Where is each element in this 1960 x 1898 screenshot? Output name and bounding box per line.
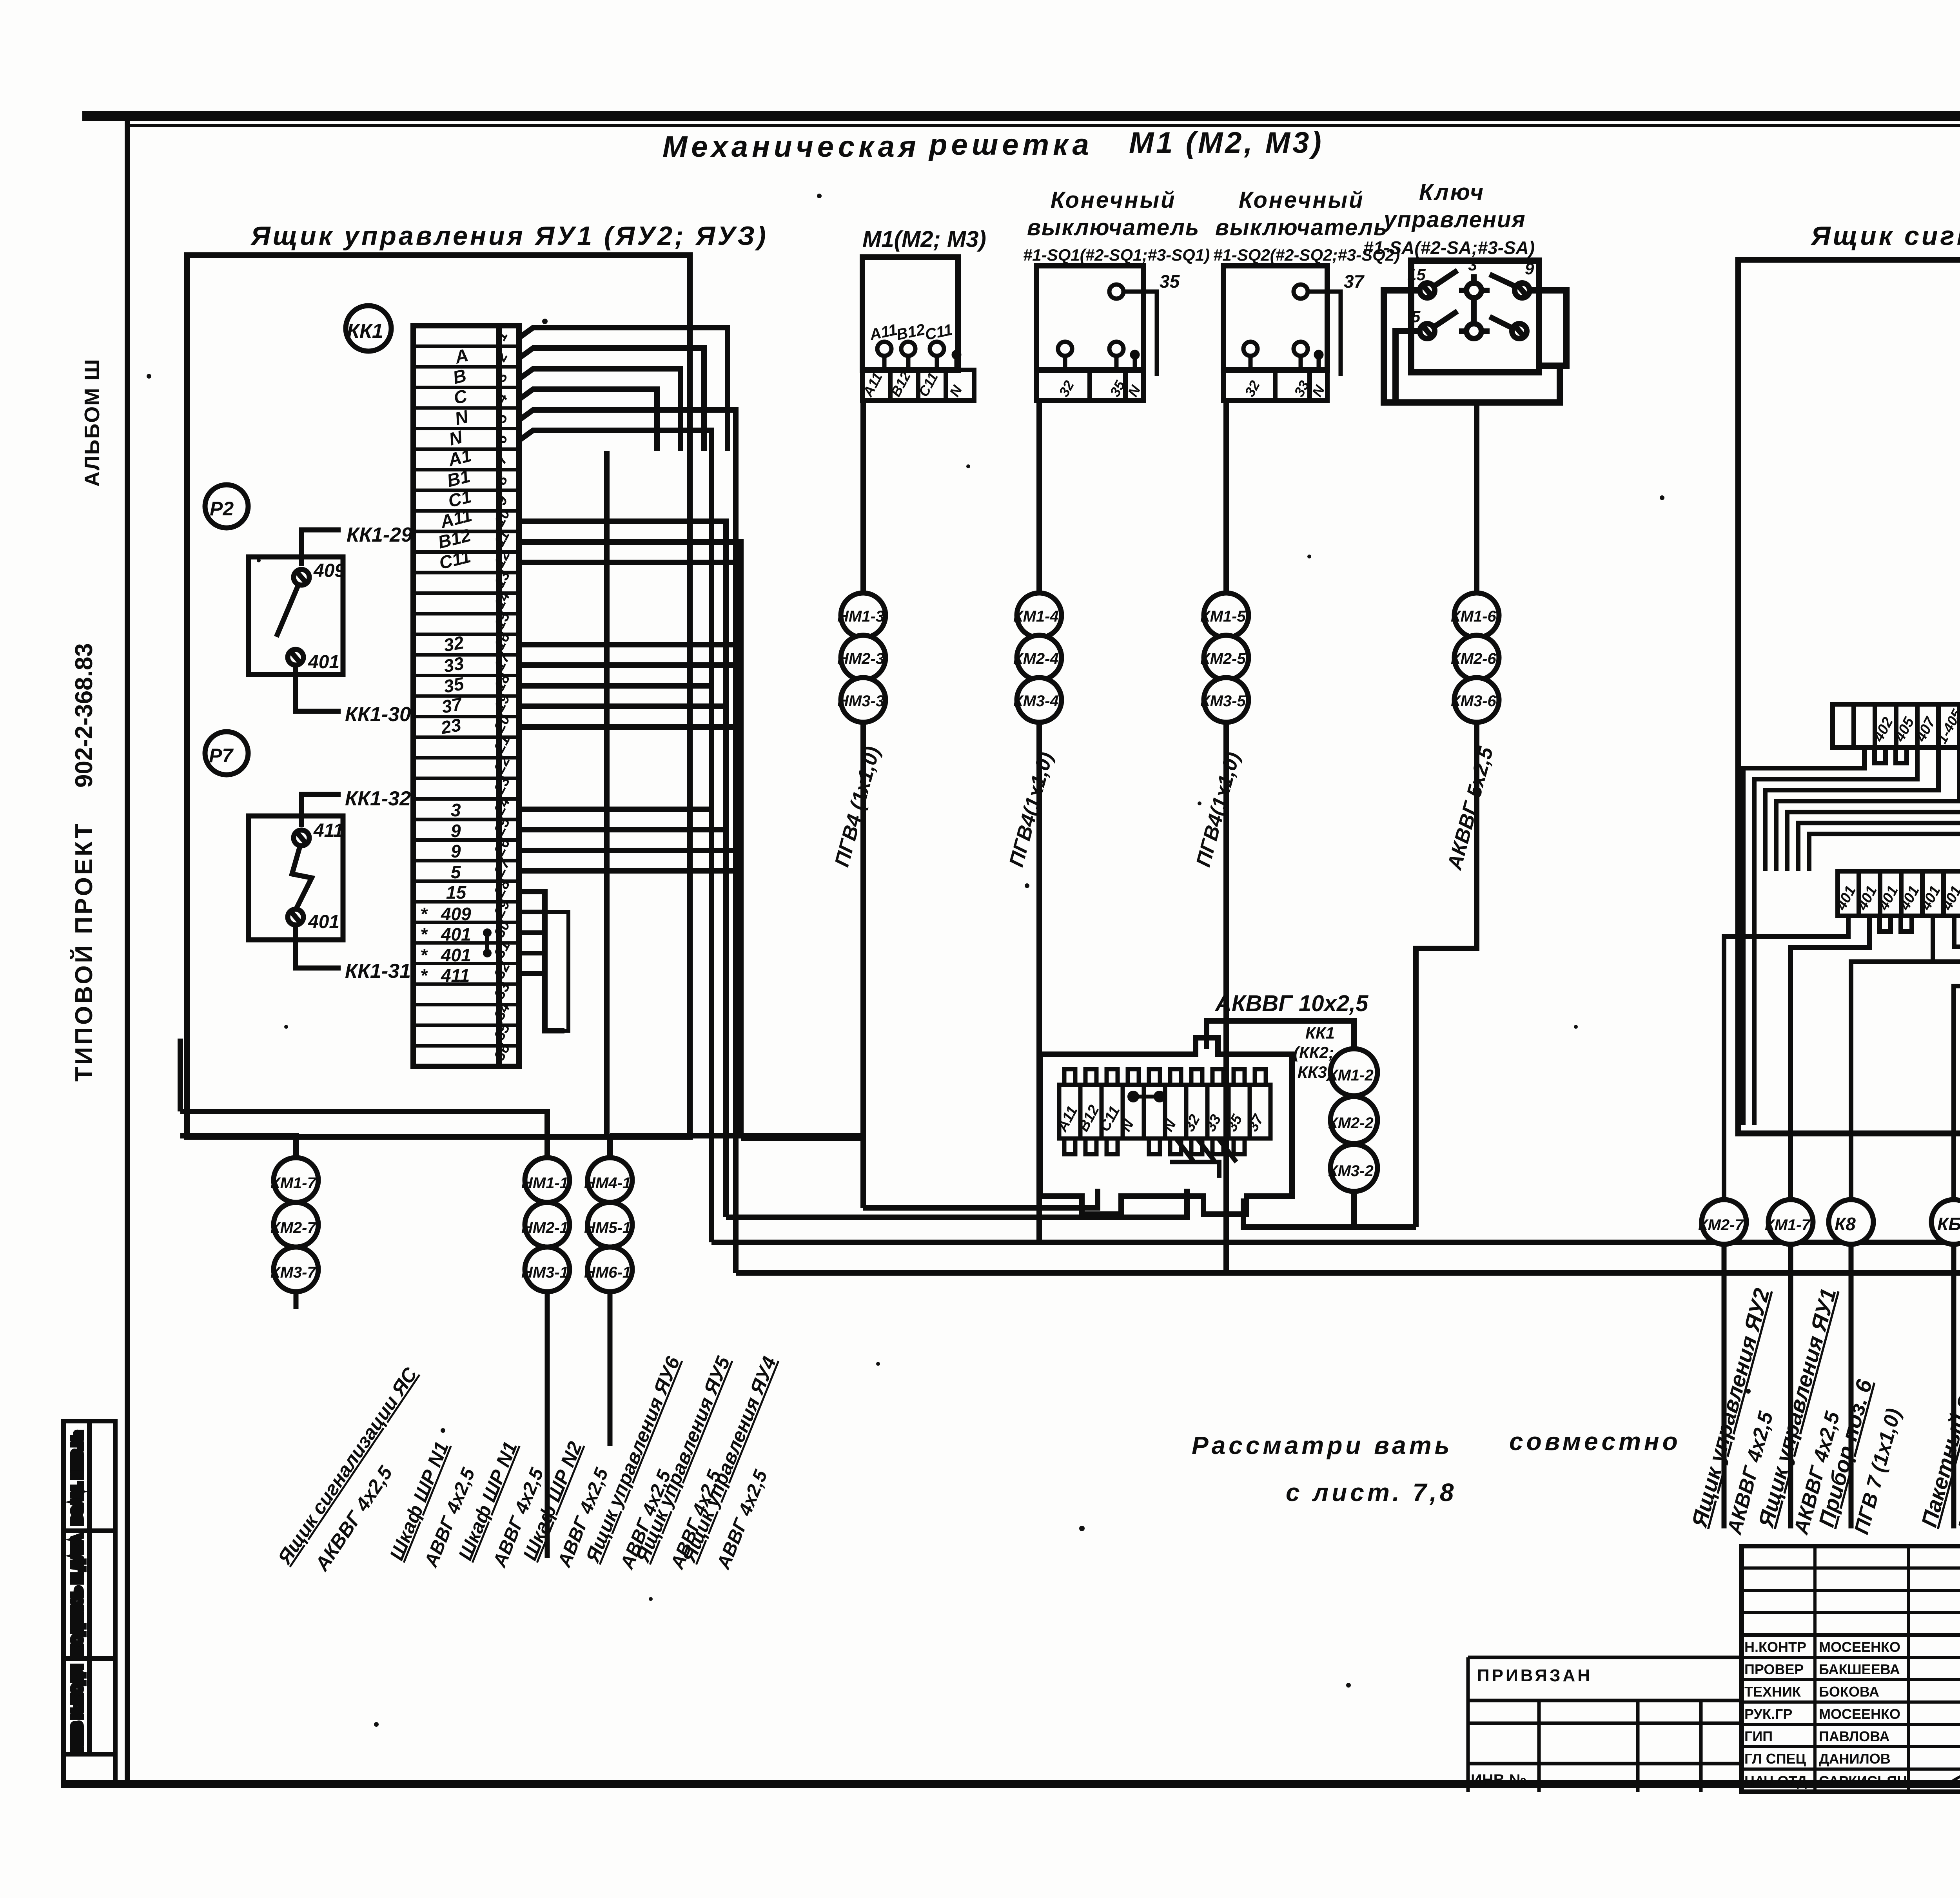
svg-text:Н.КОНТР: Н.КОНТР: [1744, 1639, 1806, 1655]
control box YaU1 outline: [187, 255, 690, 1137]
svg-text:Р2: Р2: [210, 498, 234, 520]
svg-text:401: 401: [308, 912, 339, 932]
control key SA label: [1363, 179, 1535, 258]
svg-text:КК1-32: КК1-32: [345, 787, 411, 810]
wire to KK1-30: [296, 665, 341, 711]
wire bundle hooks rows 1-4: [519, 328, 728, 451]
svg-text:ИНВ №ПОДЛ: ИНВ №ПОДЛ: [70, 1665, 85, 1751]
limit switch SQ2 box: [1223, 266, 1327, 370]
cable label AKVVG 10x2.5: [1214, 991, 1368, 1016]
svg-text:КК1-30: КК1-30: [345, 703, 411, 726]
svg-text:ИНВ.№: ИНВ.№: [1471, 1771, 1526, 1789]
contact terminal 409: [294, 569, 309, 585]
destination label paket switch SA: [1916, 1217, 1960, 1537]
contact terminal 401: [288, 649, 303, 665]
wire to KK1-31: [296, 925, 341, 968]
terminal strip K1: [1833, 704, 1960, 747]
relay P7 designator: [205, 732, 248, 775]
thermal relay KK1 designator: [346, 306, 391, 351]
wire N row6: [519, 430, 711, 1242]
connector KK1 terminal row: [1059, 1069, 1270, 1154]
SQ1 terminals: [1058, 271, 1180, 376]
connector top tabs: [1064, 1069, 1075, 1085]
wires 3 9 9 5 15 rows24-28: [519, 809, 741, 1031]
svg-text:ДАНИЛОВ: ДАНИЛОВ: [1819, 1751, 1891, 1767]
wire below NM3-1: [545, 1292, 550, 1558]
svg-text:ПРИВЯЗАН: ПРИВЯЗАН: [1477, 1666, 1592, 1685]
svg-text:КМ2-7: КМ2-7: [270, 1219, 316, 1236]
svg-text:КМ1-6: КМ1-6: [1451, 608, 1496, 625]
wires below right markers: [1724, 1244, 1960, 1528]
svg-text:НМ1-3: НМ1-3: [837, 608, 884, 625]
motor M1 terminal strip: [859, 369, 974, 401]
cable marker KM1-7 right: [1765, 1200, 1813, 1244]
destination label YaU4: [678, 1354, 781, 1572]
cable marker KM3-4: [1013, 678, 1062, 722]
svg-text:М1(М2; М3): М1(М2; М3): [862, 227, 986, 252]
svg-text:КМ1-4: КМ1-4: [1013, 608, 1059, 625]
svg-text:НМ2-1: НМ2-1: [521, 1219, 568, 1236]
svg-text:9: 9: [451, 841, 461, 861]
svg-text:37: 37: [1344, 271, 1365, 292]
SQ2 terminals: [1243, 271, 1365, 376]
svg-text:М1 (М2, М3): М1 (М2, М3): [1129, 126, 1324, 160]
strip K1 labels: [1870, 706, 1960, 746]
cable marker NM2-1: [521, 1202, 570, 1247]
jumper dots rows 30-31: [485, 933, 489, 953]
cable marker K8: [1829, 1200, 1873, 1244]
cable marker KM3-6: [1451, 678, 1499, 722]
svg-text:409: 409: [313, 560, 345, 581]
sheet frame left border: [125, 118, 130, 1786]
title block table: [1742, 1546, 1960, 1792]
limit switch SQ1 label: [1023, 187, 1210, 265]
destination label YaU5: [632, 1353, 735, 1573]
svg-text:Р7: Р7: [209, 745, 234, 767]
svg-text:ВЗАМ. ИНВ.№: ВЗАМ. ИНВ.№: [70, 1431, 85, 1525]
cable marker KM2-5: [1200, 635, 1249, 680]
cable marker KM3-5: [1200, 678, 1249, 722]
svg-text:выключатель: выключатель: [1215, 215, 1388, 240]
svg-text:НМ3-1: НМ3-1: [521, 1264, 568, 1281]
cable marker NM2-3: [837, 635, 886, 680]
destination label YaU1: [1753, 1286, 1844, 1537]
connector internal zigzag contacts: [1170, 1138, 1236, 1178]
connector KK1 cell labels: [1054, 1102, 1267, 1135]
cable marker NM4-1: [584, 1158, 632, 1202]
svg-text:15: 15: [446, 882, 467, 903]
svg-text:*: *: [420, 924, 428, 944]
svg-text:КМ2-5: КМ2-5: [1200, 650, 1246, 667]
control key SA box: [1411, 261, 1539, 372]
svg-text:3: 3: [1468, 256, 1477, 274]
motor M1 box: [862, 257, 958, 370]
destination label ShR N1: [385, 1439, 479, 1570]
svg-text:КМ2-6: КМ2-6: [1451, 650, 1496, 667]
limit switch SQ1 box: [1036, 266, 1143, 370]
privyazan block: [1468, 1657, 1742, 1792]
destination label ShR N1 second: [454, 1439, 548, 1570]
terminal strip K2: [1838, 871, 1960, 916]
signal box YaS label: [1810, 221, 1960, 251]
long bus wire to YaS box: [711, 1240, 1960, 1245]
destination label Pribor poz 6: [1814, 1377, 1906, 1537]
svg-text:АЛЬБОМ Ш: АЛЬБОМ Ш: [80, 359, 104, 487]
wires star rows29-32: [519, 912, 568, 1031]
svg-text:АКВВГ 10х2,5: АКВВГ 10х2,5: [1214, 991, 1368, 1016]
contact terminal 411: [294, 830, 309, 846]
left margin stamp boxes: [64, 1421, 115, 1786]
svg-text:КМ3-6: КМ3-6: [1451, 692, 1496, 710]
relay P2 contact block: [249, 524, 412, 726]
destination label ShR N2: [519, 1438, 612, 1570]
cable marker KM2-7 right: [1698, 1200, 1746, 1244]
bus wire to connector left tab: [726, 1189, 1187, 1217]
wire KM3-2 to bus: [1243, 1191, 1416, 1227]
svg-text:КМ1-7: КМ1-7: [270, 1175, 316, 1192]
svg-text:Ключ: Ключ: [1419, 179, 1485, 205]
svg-text:3: 3: [451, 800, 461, 820]
wires from strip K1 stepping left: [1743, 747, 1960, 1125]
connector bottom tabs: [1064, 1138, 1075, 1154]
svg-text:КК3): КК3): [1298, 1063, 1332, 1081]
svg-text:5: 5: [451, 862, 461, 882]
svg-text:решетка: решетка: [928, 128, 1093, 161]
cable marker KM2-6: [1451, 635, 1499, 680]
noise dots: [147, 194, 1960, 1727]
svg-text:БАКШЕЕВА: БАКШЕЕВА: [1819, 1661, 1900, 1677]
bus wire M1 to connector: [863, 1189, 1098, 1208]
svg-text:35: 35: [442, 673, 466, 697]
cable marker KB: [1931, 1200, 1960, 1244]
svg-text:НМ1-1: НМ1-1: [521, 1175, 568, 1192]
wire SQ2 down: [1223, 401, 1229, 1273]
svg-text:9: 9: [1525, 259, 1534, 278]
svg-text:*: *: [420, 965, 428, 986]
cable marker NM5-1: [584, 1202, 632, 1247]
svg-text:совместно: совместно: [1509, 1427, 1681, 1456]
svg-text:НМ5-1: НМ5-1: [584, 1219, 631, 1236]
wire SA down with jog: [1416, 402, 1477, 1227]
svg-text:902-2-368.83: 902-2-368.83: [71, 643, 98, 788]
svg-text:КМ3-4: КМ3-4: [1013, 692, 1059, 710]
svg-text:КМ2-7: КМ2-7: [1698, 1216, 1744, 1234]
svg-text:КМ1-2: КМ1-2: [1328, 1067, 1374, 1084]
svg-text:КМ3-2: КМ3-2: [1328, 1162, 1374, 1180]
svg-text:#1-SQ1(#2-SQ1;#3-SQ1): #1-SQ1(#2-SQ1;#3-SQ1): [1023, 246, 1210, 265]
svg-text:КМ1-7: КМ1-7: [1765, 1216, 1811, 1234]
destination label YaU6: [581, 1353, 684, 1573]
wire to KK1-29: [301, 530, 341, 566]
zigzag switch arm: [292, 847, 312, 909]
relay P2 designator: [205, 485, 248, 528]
svg-text:Конечный: Конечный: [1239, 187, 1365, 213]
destination label YaU2: [1686, 1286, 1778, 1537]
control box YaU1 label: [250, 221, 768, 251]
terminal strip row labels: [420, 344, 492, 986]
svg-text:НАЧ.ОТД: НАЧ.ОТД: [1744, 1773, 1807, 1789]
wires from strip K2 down: [1724, 916, 1960, 1273]
cable label PGV4 SQ2: [1192, 750, 1245, 869]
svg-text:КМ2-2: КМ2-2: [1328, 1115, 1374, 1132]
svg-text:ГЛ СПЕЦ: ГЛ СПЕЦ: [1744, 1751, 1806, 1767]
note text Rassmatrivat: [1192, 1427, 1681, 1506]
wire B12 row11: [519, 542, 741, 1138]
wire C11 row12: [519, 560, 736, 565]
cable marker KM1-2: [1328, 1049, 1377, 1096]
signature squiggles: [1952, 1636, 1960, 1790]
long bus wire to YaS box bottom: [736, 1133, 1960, 1273]
SQ2 terminal strip: [1223, 370, 1328, 401]
svg-text:35: 35: [1160, 271, 1180, 292]
svg-text:5: 5: [1411, 307, 1421, 326]
cable marker NM1-1: [521, 1158, 570, 1202]
cable label PGV4 M1: [831, 744, 885, 869]
KK1 heater designator text: [1294, 1024, 1335, 1081]
wire below NM6-1: [608, 1292, 613, 1446]
connector KK1 outline: [1040, 1038, 1292, 1214]
svg-text:КМ2-4: КМ2-4: [1013, 650, 1059, 667]
wire A11 row10: [519, 521, 726, 1158]
svg-text:управления: управления: [1383, 207, 1526, 232]
bus wire below YaU1 box: [180, 1039, 863, 1158]
cable marker NM3-1: [521, 1247, 570, 1292]
svg-text:9: 9: [451, 821, 461, 841]
cable marker KM1-5: [1200, 593, 1249, 638]
svg-text:23: 23: [439, 714, 463, 738]
svg-text:НМ3-3: НМ3-3: [837, 692, 884, 710]
cable marker KM1-7: [270, 1158, 318, 1202]
SQ1 terminal strip: [1036, 370, 1144, 401]
terminal strip pin numbers 1-36: [491, 328, 514, 1063]
svg-text:409: 409: [441, 904, 471, 924]
main title: [662, 126, 1324, 163]
switch arm: [276, 586, 298, 637]
SA contacts: [1407, 256, 1534, 339]
cable marker KM1-6: [1451, 593, 1499, 638]
svg-text:ТИПОВОЙ ПРОЕКТ: ТИПОВОЙ ПРОЕКТ: [70, 821, 98, 1082]
contact terminal 401: [288, 909, 303, 925]
wire SQ1 down: [1036, 401, 1042, 1242]
svg-text:33: 33: [442, 653, 466, 676]
svg-text:РУК.ГР: РУК.ГР: [1744, 1706, 1792, 1722]
signal box YaS outline: [1738, 260, 1960, 1133]
cable marker NM3-3: [837, 678, 886, 722]
terminal strip XT of YaU1: [413, 326, 519, 1066]
svg-text:ГИП: ГИП: [1744, 1728, 1773, 1744]
svg-text:выключатель: выключатель: [1027, 215, 1200, 240]
svg-text:*: *: [420, 904, 428, 924]
cable marker KM2-7: [270, 1202, 318, 1247]
svg-text:МОСЕЕНКО: МОСЕЕНКО: [1819, 1706, 1900, 1722]
svg-text:НМ2-3: НМ2-3: [837, 650, 884, 667]
cable bracket AKVVG10: [1207, 1021, 1354, 1049]
svg-text:15: 15: [1407, 265, 1426, 284]
cable marker NM1-3: [837, 593, 886, 638]
svg-text:КК1: КК1: [347, 320, 383, 343]
svg-text:401: 401: [441, 924, 471, 944]
cable marker KM3-7: [270, 1247, 318, 1292]
svg-text:КК1-29: КК1-29: [347, 524, 412, 546]
svg-text:411: 411: [441, 965, 470, 986]
wires 32 33 35 37 23 rows16-20: [519, 645, 741, 727]
svg-text:КК1: КК1: [1305, 1024, 1335, 1042]
svg-text:КМ3-5: КМ3-5: [1200, 692, 1246, 710]
svg-text:*: *: [420, 945, 428, 965]
wire N row5: [519, 410, 736, 1273]
svg-text:Конечный: Конечный: [1051, 187, 1176, 213]
wire M1 down: [860, 401, 866, 1208]
SA outer enclosure wires: [1384, 290, 1566, 402]
strip K2 labels: [1833, 883, 1960, 913]
svg-text:Ящик сигнализации ЯС: Ящик сигнализации ЯС: [1810, 221, 1960, 251]
svg-text:САРКИСЬЯН: САРКИСЬЯН: [1819, 1773, 1907, 1789]
cable marker KM2-2: [1328, 1097, 1377, 1144]
svg-text:с лист. 7,8: с лист. 7,8: [1286, 1478, 1457, 1506]
cable marker NM6-1: [584, 1247, 632, 1292]
relay P7 contact block: [249, 787, 411, 983]
svg-text:Механическая: Механическая: [662, 130, 920, 163]
svg-text:КБ: КБ: [1937, 1214, 1960, 1234]
wire below KM3-7: [294, 1292, 299, 1309]
ladder vertical wires: [607, 451, 741, 1217]
left margin vertical stamp texts: [70, 359, 104, 1082]
cable label PGV4 SQ1: [1005, 750, 1058, 869]
svg-text:Рассматри вать: Рассматри вать: [1192, 1431, 1453, 1459]
sheet frame bottom border: [63, 1780, 1960, 1788]
limit switch SQ2 label: [1213, 187, 1400, 265]
svg-text:ПОДПИСЬ И ДАТА: ПОДПИСЬ И ДАТА: [70, 1535, 85, 1655]
svg-text:401: 401: [308, 652, 339, 673]
svg-text:НМ4-1: НМ4-1: [584, 1175, 631, 1192]
cable marker KM2-4: [1013, 635, 1062, 680]
svg-text:ТЕХНИК: ТЕХНИК: [1744, 1684, 1801, 1700]
svg-text:К8: К8: [1835, 1214, 1856, 1234]
svg-text:#1-SA(#2-SA;#3-SA): #1-SA(#2-SA;#3-SA): [1363, 237, 1535, 258]
svg-text:КМ3-7: КМ3-7: [270, 1264, 316, 1281]
destination label YaS cable: [273, 1363, 422, 1575]
svg-text:Ящик управления ЯУ1 (ЯУ2; ЯУЗ: Ящик управления ЯУ1 (ЯУ2; ЯУЗ): [250, 221, 768, 251]
svg-text:БОКОВА: БОКОВА: [1819, 1684, 1879, 1700]
cable marker KM1-4: [1013, 593, 1062, 638]
wire to KK1-32: [301, 794, 341, 827]
svg-text:КМ1-5: КМ1-5: [1200, 608, 1246, 625]
svg-text:32: 32: [442, 632, 466, 656]
svg-text:401: 401: [441, 945, 471, 965]
svg-text:КК1-31: КК1-31: [345, 960, 411, 983]
svg-text:НМ6-1: НМ6-1: [584, 1264, 631, 1281]
svg-text:(КК2;: (КК2;: [1294, 1043, 1334, 1062]
svg-text:МОСЕЕНКО: МОСЕЕНКО: [1819, 1639, 1900, 1655]
motor M1 label: [862, 227, 986, 252]
svg-text:411: 411: [313, 820, 344, 841]
title block signature rows: [1744, 1639, 1907, 1789]
motor M1 terminals: [868, 321, 959, 370]
svg-text:ПРОВЕР: ПРОВЕР: [1744, 1661, 1804, 1677]
cable marker KM3-2: [1328, 1144, 1377, 1191]
svg-text:ПАВЛОВА: ПАВЛОВА: [1819, 1728, 1889, 1744]
connector N-N jumper: [1129, 1093, 1163, 1100]
cable label AKVVG 5x2.5: [1443, 744, 1498, 873]
